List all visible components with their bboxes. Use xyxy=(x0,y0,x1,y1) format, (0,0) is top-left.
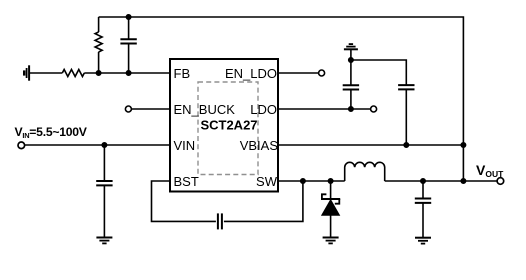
wire VOUT net xyxy=(385,180,498,182)
diode D1 (Schottky catch diode) xyxy=(321,181,340,238)
ground GND3 (diode) xyxy=(323,238,339,244)
svg-text:FB: FB xyxy=(174,66,191,81)
terminal EN_LDO xyxy=(319,70,325,76)
node GND net junction at C5 xyxy=(349,58,353,62)
node top net junction at C1 xyxy=(126,15,130,19)
inductor L1 xyxy=(345,162,385,181)
IC U1 SCT2A27 body xyxy=(170,59,278,192)
ground GND5 (inverted, LDO cap top) xyxy=(344,44,358,60)
wire BST pin loop (left segment) xyxy=(152,181,216,221)
wire EN_BUCK terminal to pin xyxy=(131,108,170,110)
node LDO junction at C5 xyxy=(349,107,353,111)
node VBIAS junction at sense line xyxy=(461,143,465,147)
svg-text:SW: SW xyxy=(256,174,278,189)
capacitor C4 (output) xyxy=(415,181,431,238)
svg-text:SCT2A27: SCT2A27 xyxy=(200,118,257,133)
IC U1 internal dashed block xyxy=(198,82,258,175)
node SW junction at BST cap xyxy=(301,179,305,183)
resistor R1 (horizontal, FB lower divider) xyxy=(62,70,84,77)
label VOUT xyxy=(476,162,504,179)
wire VBIAS net xyxy=(278,144,463,146)
wire LDO pin to terminal xyxy=(278,108,371,110)
capacitor C3 (bootstrap) xyxy=(218,213,222,229)
node VBIAS junction at C6 xyxy=(404,143,408,147)
terminal VIN input xyxy=(18,142,25,149)
terminal LDO output xyxy=(371,106,377,112)
wire R1 to FB pin xyxy=(84,72,170,74)
node FB junction at C1 xyxy=(126,71,130,75)
svg-text:VIN: VIN xyxy=(174,138,196,153)
terminal EN_BUCK input xyxy=(125,106,131,112)
wire VIN terminal to VIN pin xyxy=(25,144,170,146)
ground GND2 (input cap) xyxy=(96,238,112,244)
ground GND4 (output cap) xyxy=(415,238,431,244)
wire EN_LDO pin to terminal xyxy=(278,72,319,74)
capacitor C1 (feed-forward, across R2) xyxy=(120,17,136,73)
ground GND1 (left, rotated, on FB divider) xyxy=(24,65,29,80)
wire top feedback net (to output sense) xyxy=(99,17,464,181)
svg-text:EN_LDO: EN_LDO xyxy=(225,66,277,81)
node VOUT junction at C4 xyxy=(421,179,425,183)
wire SW pin to inductor xyxy=(278,180,345,182)
label VIN=5.5~100V xyxy=(15,125,88,140)
node VOUT junction at sense line xyxy=(461,179,465,183)
wire GND1 to R1 xyxy=(29,72,62,74)
svg-text:BST: BST xyxy=(174,174,199,189)
svg-text:LDO: LDO xyxy=(250,102,277,117)
svg-text:VBIAS: VBIAS xyxy=(240,138,279,153)
capacitor C6 (VBIAS bypass) xyxy=(398,85,414,145)
capacitor C2 (input) xyxy=(96,145,112,238)
wire C3 to SW node xyxy=(224,181,303,221)
node FB junction at R2 xyxy=(96,71,100,75)
wire GND net to C6 xyxy=(351,60,406,85)
terminal VOUT output xyxy=(497,178,504,185)
node VIN junction at C2 xyxy=(102,143,106,147)
resistor R2 (vertical, FB upper divider) xyxy=(95,17,102,73)
svg-text:EN_BUCK: EN_BUCK xyxy=(174,102,236,117)
node SW junction at D1 xyxy=(328,179,332,183)
capacitor C5 (LDO bypass) xyxy=(343,60,359,109)
